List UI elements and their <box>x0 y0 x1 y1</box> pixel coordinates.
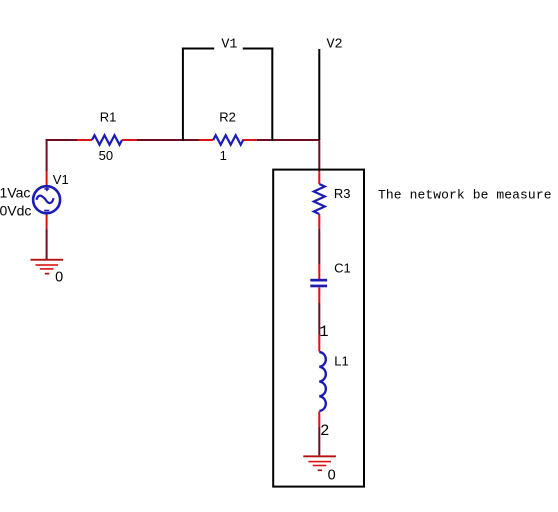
svg-text:1: 1 <box>319 323 328 341</box>
resistor R2 <box>199 110 257 163</box>
svg-text:1: 1 <box>220 148 227 163</box>
wire main horizontal net <box>46 139 321 141</box>
voltage source V1 <box>0 171 69 230</box>
svg-text:0: 0 <box>55 270 63 286</box>
wire R3 to C1 <box>318 229 320 264</box>
wire vertical into network box <box>318 141 320 171</box>
wire L1 to ground <box>318 427 320 455</box>
svg-text:R2: R2 <box>219 110 236 125</box>
svg-text:The network be measure: The network be measure <box>378 187 552 202</box>
ground 0 (right) <box>303 455 336 483</box>
wire C1 to L1 <box>318 303 320 335</box>
wire left vertical to source <box>46 139 48 259</box>
svg-text:V2: V2 <box>327 38 343 53</box>
svg-text:C1: C1 <box>334 261 351 276</box>
wire V2 vertical (black) <box>318 49 320 140</box>
svg-text:R3: R3 <box>334 186 351 201</box>
svg-text:V1: V1 <box>221 38 237 53</box>
svg-text:0: 0 <box>328 467 336 483</box>
svg-text:V1: V1 <box>53 172 69 187</box>
svg-text:1Vac: 1Vac <box>0 185 30 201</box>
wire V1 probe loop (black) <box>182 48 273 142</box>
inductor L1 <box>318 335 348 428</box>
capacitor C1 <box>310 261 350 303</box>
svg-text:50: 50 <box>99 148 113 163</box>
network box <box>273 170 364 487</box>
svg-text:R1: R1 <box>100 110 117 125</box>
ground 0 (left) <box>31 259 64 286</box>
svg-text:0Vdc: 0Vdc <box>0 202 31 218</box>
resistor R3 <box>314 171 351 229</box>
resistor R1 <box>77 110 137 163</box>
svg-text:2: 2 <box>320 422 329 440</box>
svg-text:L1: L1 <box>334 353 348 368</box>
